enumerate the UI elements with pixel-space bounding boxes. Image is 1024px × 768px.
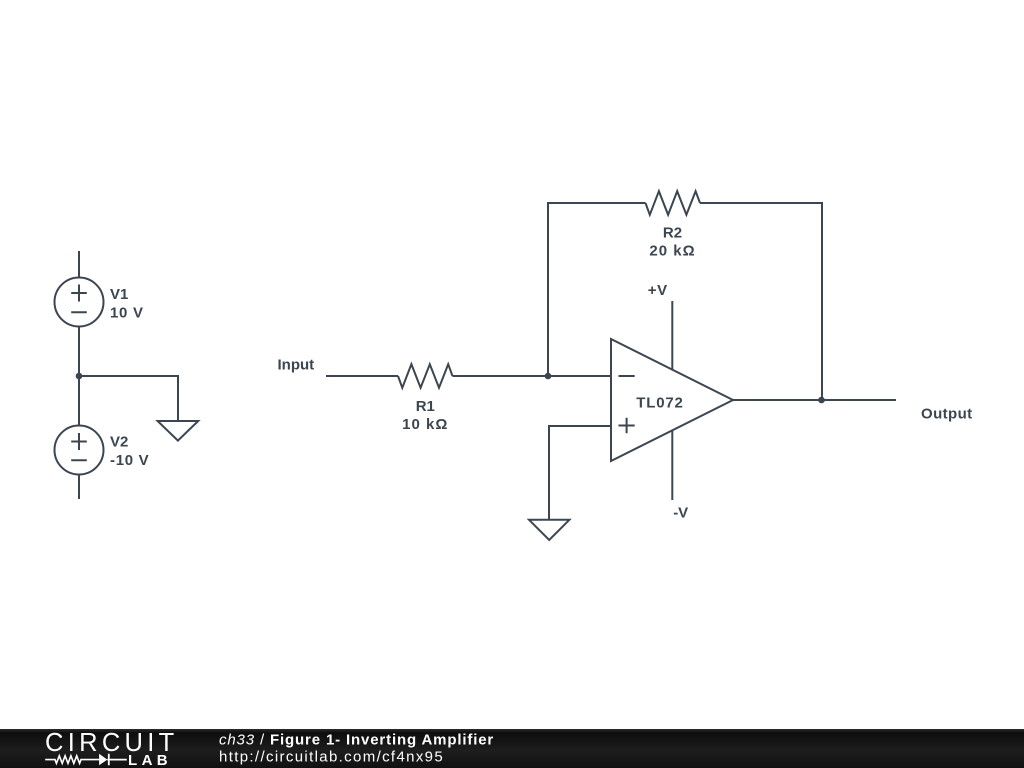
wire output bbox=[733, 399, 896, 401]
logo resistor-diode line bbox=[45, 756, 99, 764]
svg-text:+V: +V bbox=[648, 282, 668, 299]
svg-text:http://circuitlab.com/cf4nx95: http://circuitlab.com/cf4nx95 bbox=[219, 749, 444, 766]
op-amp plus pin symbol bbox=[619, 418, 635, 434]
wire feedback left vertical + top left bbox=[548, 203, 646, 376]
wire below V2 bbox=[78, 475, 80, 500]
svg-text:LAB: LAB bbox=[128, 752, 172, 768]
svg-text:V2: V2 bbox=[110, 434, 128, 451]
voltage source V2 bbox=[55, 426, 104, 475]
svg-text:-V: -V bbox=[673, 505, 688, 522]
node inverting input bbox=[545, 373, 552, 380]
svg-text:ch33 / Figure 1- Inverting Amp: ch33 / Figure 1- Inverting Amplifier bbox=[219, 731, 494, 748]
wire input bbox=[326, 375, 398, 377]
ground left bbox=[158, 421, 199, 441]
svg-text:10 kΩ: 10 kΩ bbox=[402, 416, 448, 433]
wire feedback top right + right vertical bbox=[700, 203, 822, 400]
op-amp U1 TL072 bbox=[611, 339, 733, 461]
svg-text:Input: Input bbox=[278, 356, 315, 373]
svg-text:V1: V1 bbox=[110, 286, 128, 303]
svg-text:R1: R1 bbox=[416, 398, 435, 415]
resistor R2 bbox=[646, 191, 701, 215]
wire node to op-amp minus bbox=[548, 375, 611, 377]
svg-text:Output: Output bbox=[921, 406, 973, 423]
node junction left bbox=[76, 373, 83, 380]
wire plus input bbox=[549, 426, 611, 520]
svg-text:-10 V: -10 V bbox=[110, 452, 149, 469]
wire +V supply bbox=[671, 301, 673, 369]
footer bar bbox=[0, 729, 1024, 768]
svg-text:TL072: TL072 bbox=[636, 395, 683, 412]
wire -V supply bbox=[671, 430, 673, 500]
op-amp minus pin symbol bbox=[619, 375, 635, 377]
wire junction to ground bbox=[79, 376, 178, 421]
resistor R1 bbox=[398, 364, 453, 388]
svg-text:10 V: 10 V bbox=[110, 305, 144, 322]
wire top of V1 bbox=[78, 251, 80, 278]
wire R1 to node bbox=[453, 375, 549, 377]
ground op-amp bbox=[529, 520, 569, 540]
node output bbox=[818, 397, 825, 404]
svg-text:R2: R2 bbox=[663, 225, 682, 242]
voltage source V1 bbox=[55, 278, 104, 327]
logo diode bbox=[99, 754, 107, 766]
svg-text:20 kΩ: 20 kΩ bbox=[649, 243, 695, 260]
wire V1 to V2 bbox=[78, 327, 80, 426]
